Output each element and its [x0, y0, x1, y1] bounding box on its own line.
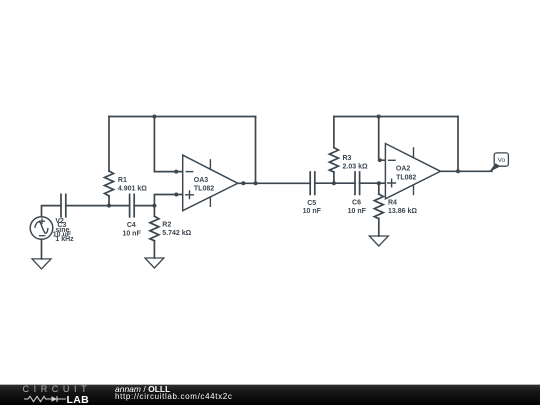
svg-text:C5: C5 — [307, 200, 316, 207]
pin dot OA3 output — [241, 181, 245, 185]
wire stage1 top feedback — [109, 116, 256, 118]
wire minus tap OA2 — [379, 117, 386, 161]
op-amp OA3 — [183, 155, 238, 211]
wire R1 top vertical — [108, 117, 110, 172]
capacitor C5 — [310, 172, 315, 194]
wire OA3 output — [238, 182, 310, 184]
footer text — [115, 384, 170, 394]
pin dot OA3 non-inverting input — [174, 193, 178, 197]
svg-text:C6: C6 — [352, 200, 361, 207]
footer bar — [0, 384, 540, 405]
resistor R2 — [150, 216, 159, 240]
wire R4 top stub — [378, 183, 380, 194]
svg-text:R4: R4 — [388, 200, 397, 207]
svg-text:5.742 kΩ: 5.742 kΩ — [162, 230, 191, 237]
svg-text:10 nF: 10 nF — [348, 208, 367, 215]
wire R2 bottom stub — [153, 241, 155, 258]
op-amp OA2 — [385, 144, 440, 199]
wire V2 bottom stub — [41, 239, 43, 259]
svg-text:4.901 kΩ: 4.901 kΩ — [118, 186, 147, 193]
wire OA2 output — [441, 170, 492, 172]
wire R2 top stub — [153, 206, 155, 217]
wire C5 to C6 — [315, 182, 355, 184]
wire R4 bottom stub — [378, 219, 380, 236]
capacitor C6 — [355, 172, 360, 194]
wire R3 top vertical — [333, 117, 335, 148]
pin dot OA3 inverting input — [174, 170, 178, 174]
junction OA2 output to feedback vertical — [456, 169, 460, 173]
svg-text:Vo: Vo — [497, 157, 505, 164]
junction OA3 output to feedback vertical — [254, 181, 258, 185]
logo resistor-diode drawing — [24, 394, 68, 404]
logo LAB — [67, 394, 89, 406]
capacitor C4 — [130, 194, 135, 216]
wire stage2 top feedback — [334, 116, 458, 118]
svg-text:R2: R2 — [162, 222, 171, 229]
svg-text:2.03 kΩ: 2.03 kΩ — [343, 164, 368, 171]
flag Vo — [494, 153, 508, 166]
junction top wire 2 to OA2 minus tap — [377, 115, 381, 119]
node C: C5/R3 junction — [332, 181, 336, 185]
svg-text:10 nF: 10 nF — [122, 231, 141, 238]
svg-text:10 uF: 10 uF — [53, 231, 72, 238]
pin dot OA2 inverting input — [378, 158, 382, 162]
svg-text:C3: C3 — [57, 222, 66, 229]
logo CIRCUIT — [23, 384, 92, 394]
resistor R4 — [374, 194, 383, 219]
wire minus tap OA3 — [154, 117, 182, 172]
svg-text:10 nF: 10 nF — [303, 208, 322, 215]
voltage source V2 — [30, 217, 53, 240]
resistor R3 — [329, 148, 338, 172]
wire C6 to OA2 plus — [360, 182, 386, 184]
resistor R1 — [105, 171, 114, 196]
labels — [53, 155, 506, 243]
svg-text:13.86 kΩ: 13.86 kΩ — [388, 208, 417, 215]
wire C4 to node — [134, 205, 154, 207]
node A: R1 bottom on main wire — [107, 204, 111, 208]
wire plus input OA3 — [154, 195, 182, 206]
flag pointer — [489, 163, 501, 172]
svg-text:TL082: TL082 — [194, 185, 214, 192]
wire R1 bottom stub — [108, 196, 110, 206]
wire feedback right vertical — [255, 117, 257, 184]
wire feedback right vertical 2 — [457, 117, 459, 172]
wire V2 to C3 — [42, 206, 62, 217]
junction top wire to OA3 minus tap — [152, 115, 156, 119]
node D: C6/R4/OA2 plus junction — [377, 181, 381, 185]
wire R3 bottom stub — [333, 172, 335, 183]
ground R2 — [145, 258, 164, 268]
wire C3 to C4 — [66, 205, 130, 207]
node B: C4/R2/plus-wire junction — [152, 204, 156, 208]
svg-text:R3: R3 — [343, 155, 352, 162]
svg-text:R1: R1 — [118, 177, 127, 184]
ground R4 — [369, 236, 388, 246]
ground V2 — [32, 259, 51, 269]
svg-text:OA2: OA2 — [396, 166, 411, 173]
svg-text:OA3: OA3 — [194, 177, 209, 184]
svg-text:TL082: TL082 — [396, 174, 416, 181]
svg-text:C4: C4 — [127, 222, 136, 229]
capacitor C3 — [61, 194, 66, 216]
